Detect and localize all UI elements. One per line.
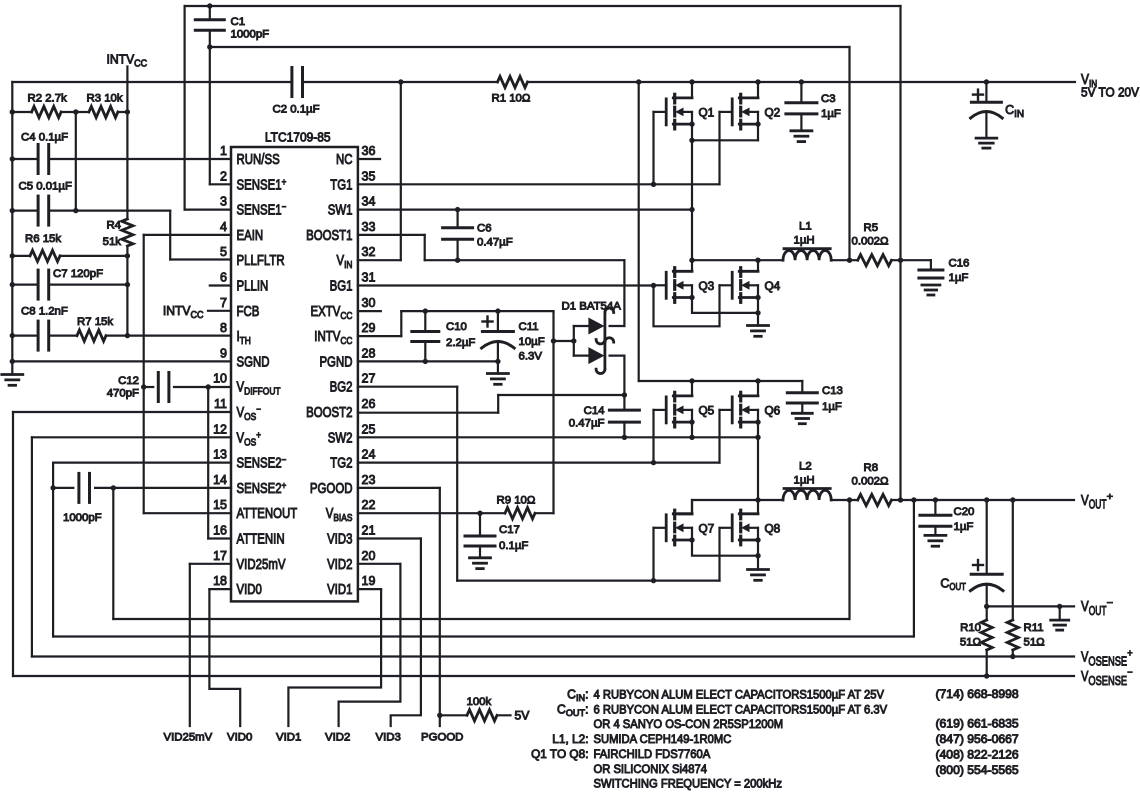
svg-text:R7 15k: R7 15k — [77, 316, 113, 328]
svg-text:LTC1709-85: LTC1709-85 — [265, 130, 331, 145]
svg-text:Q2: Q2 — [765, 106, 781, 120]
capacitor 1000pF — [77, 473, 80, 502]
svg-text:13: 13 — [213, 447, 227, 462]
wire EXTVCC rail — [401, 310, 553, 312]
svg-text:33: 33 — [362, 219, 376, 234]
wire C10 bottom stub — [424, 342, 426, 362]
svg-text:1µF: 1µF — [954, 521, 974, 533]
svg-text:L1: L1 — [799, 221, 812, 233]
svg-text:−: − — [1127, 668, 1132, 679]
wire CIN stub — [985, 82, 987, 102]
junction BOOST2/C14 top — [622, 392, 627, 397]
wire L2 to R8 — [831, 499, 858, 501]
junction Q5 on SW2 row — [689, 435, 694, 440]
svg-text:VID3: VID3 — [376, 732, 401, 744]
wire Q4 source drop — [757, 298, 759, 326]
svg-text:L2: L2 — [799, 461, 812, 473]
svg-text:R11: R11 — [1024, 622, 1044, 634]
svg-text:IN: IN — [1014, 109, 1024, 120]
svg-text:−: − — [282, 202, 287, 213]
svg-text:C6: C6 — [477, 223, 492, 235]
svg-text:−: − — [282, 455, 287, 466]
svg-text:C2 0.1µF: C2 0.1µF — [273, 104, 320, 116]
svg-text:VID1: VID1 — [276, 732, 301, 744]
wire pin24 TG2 row — [358, 462, 720, 464]
wire pin26 BOOST2 row — [358, 412, 498, 414]
wire C16 stub — [930, 260, 932, 270]
svg-text:8: 8 — [220, 320, 227, 335]
wire pin22 VBIAS row — [358, 512, 505, 514]
svg-text:1000pF: 1000pF — [63, 512, 102, 524]
capacitor CIN (polarized) — [971, 101, 1001, 104]
junction SENSE2+ riser — [111, 485, 116, 490]
svg-text:(847) 956-0667: (847) 956-0667 — [936, 732, 1019, 746]
capacitor C13 — [787, 391, 817, 394]
svg-text:Q6: Q6 — [765, 404, 781, 418]
wire INTVCC jog up — [400, 311, 402, 336]
svg-text:PGOOD: PGOOD — [421, 732, 463, 744]
svg-text:+: + — [282, 481, 287, 492]
wire R7 to node — [106, 335, 127, 337]
svg-text:Q4: Q4 — [765, 279, 781, 293]
wire INTVCC label lead — [126, 67, 128, 113]
transistor Q8 — [739, 512, 758, 515]
wire CIN ground stem — [985, 112, 987, 138]
wire BOOST1 row right — [425, 259, 625, 261]
ground under C16 — [922, 284, 940, 287]
svg-text:C10: C10 — [446, 321, 467, 333]
svg-text:ATTENIN: ATTENIN — [237, 532, 285, 548]
svg-text:C3: C3 — [821, 93, 836, 105]
junction Q3/Q4 source join — [755, 310, 760, 315]
wire R5 right — [892, 259, 931, 261]
wire D1b cathode drop to BOOST2 — [623, 356, 625, 395]
svg-text:OUT: OUT — [949, 582, 966, 593]
svg-text:OS: OS — [244, 436, 256, 448]
svg-text:R3 10k: R3 10k — [87, 93, 123, 105]
wire top anode lead — [574, 325, 589, 327]
capacitor C14 — [609, 409, 639, 412]
wire pullup to 100k — [440, 714, 467, 716]
junction VOUT- ground tap — [1057, 604, 1062, 609]
svg-text:C5 0.01µF: C5 0.01µF — [19, 181, 72, 193]
svg-text:0.1µF: 0.1µF — [499, 540, 528, 552]
wire pin29 INTVCC row — [358, 335, 401, 337]
svg-text:VID25mV: VID25mV — [237, 557, 286, 573]
svg-text:28: 28 — [362, 345, 376, 360]
svg-text:INTV: INTV — [163, 303, 191, 318]
svg-text:6.3V: 6.3V — [519, 351, 543, 363]
wire pin18 row — [209, 588, 231, 590]
svg-text:0.002Ω: 0.002Ω — [852, 476, 890, 488]
wire pin36 NC stub — [358, 158, 380, 160]
svg-text:32: 32 — [362, 244, 376, 259]
wire C3 ground stem — [800, 114, 802, 131]
wire R2-R3 — [61, 111, 89, 113]
wire Q5 drain riser — [691, 381, 693, 396]
svg-text:BIAS: BIAS — [333, 512, 352, 524]
svg-text:FCB: FCB — [237, 304, 260, 320]
wire pin2 SENSE1+ row — [210, 183, 231, 185]
wire phase2 VIN feed — [638, 82, 640, 381]
capacitor C12 — [157, 373, 160, 402]
wire C5 row right — [49, 210, 170, 212]
svg-text:VID0: VID0 — [227, 732, 252, 744]
svg-text:29: 29 — [362, 320, 376, 335]
wire C7 row right — [49, 284, 128, 286]
svg-text:OSENSE: OSENSE — [1088, 674, 1127, 688]
svg-text:+: + — [282, 177, 287, 188]
svg-text:C17: C17 — [499, 524, 520, 536]
svg-text:17: 17 — [213, 548, 227, 563]
resistor R3 — [89, 106, 118, 117]
svg-text:PGOOD: PGOOD — [310, 481, 353, 497]
wire Q6 drain riser — [757, 381, 759, 396]
resistor R2 — [32, 106, 61, 117]
wire to pin5 PLLFLTR — [170, 258, 231, 260]
svg-text:INTV: INTV — [107, 52, 135, 67]
wire Q3 drain riser — [691, 260, 693, 271]
junction C10 top — [423, 308, 428, 313]
svg-text:C7 120pF: C7 120pF — [53, 268, 103, 280]
wire R3 to INTVCC node — [118, 111, 128, 113]
wire pin4 EAIN row — [144, 234, 231, 236]
wire C11 ground stem — [497, 361, 499, 373]
wire pin33 BOOST1 row — [358, 234, 425, 236]
wire Q6 source drop — [757, 422, 759, 500]
wire EXTVCC rail drop — [552, 311, 554, 513]
capacitor C11 (polarized) — [482, 330, 513, 333]
svg-text:CC: CC — [134, 58, 147, 69]
junction Q6 drain — [755, 378, 760, 383]
junction on ground bus — [10, 282, 15, 287]
wire pin15 ATTENOUT row — [144, 512, 231, 514]
wire SENSE1- top row — [185, 5, 901, 7]
svg-text:51Ω: 51Ω — [960, 637, 982, 649]
svg-text:14: 14 — [213, 472, 227, 487]
svg-text:VID3: VID3 — [327, 532, 352, 548]
svg-text::: : — [585, 688, 588, 702]
junction on ground bus — [10, 156, 15, 161]
svg-text:6: 6 — [220, 270, 227, 285]
svg-text:0.47µF: 0.47µF — [477, 237, 513, 249]
svg-text:C16: C16 — [949, 258, 970, 270]
junction C17 tap — [477, 511, 482, 516]
svg-text:4 RUBYCON ALUM ELECT CAPACITOR: 4 RUBYCON ALUM ELECT CAPACITORS1500µF AT… — [594, 688, 885, 702]
svg-text:36: 36 — [362, 143, 376, 158]
junction L1/R5 SENSE1+ tap — [847, 258, 852, 263]
wire Q7 source drop — [692, 540, 758, 556]
capacitor C17 — [465, 535, 495, 538]
resistor R1 — [498, 76, 528, 87]
wire pin35 TG1 row — [358, 183, 720, 185]
junction R11 on VOSENSE+ — [1010, 654, 1015, 659]
svg-text:R9 10Ω: R9 10Ω — [497, 495, 536, 507]
junction D1 anode tap — [551, 338, 556, 343]
wire C20 stub — [934, 500, 936, 515]
capacitor C6 — [443, 226, 473, 229]
junction L2/Q6/Q8 node — [755, 497, 760, 502]
wire SW1 vertical — [691, 124, 693, 260]
ground under C13 — [792, 412, 812, 415]
svg-text:1µH: 1µH — [794, 475, 815, 487]
resistor R10 — [981, 620, 992, 650]
wire SENSE1- left vertical — [184, 6, 186, 210]
junction BG1 Q3 gate — [651, 283, 656, 288]
wire BG2 drop — [456, 387, 458, 581]
wire pin23 PGOOD row — [358, 487, 440, 489]
wire anode bracket — [573, 326, 575, 356]
wire R6 row left — [12, 255, 30, 257]
wire anode tap — [554, 340, 574, 342]
svg-text:−: − — [256, 405, 261, 416]
junction SW1 node — [689, 258, 694, 263]
junction BG2 Q7 gate riser — [651, 578, 656, 583]
svg-text:SENSE2: SENSE2 — [237, 456, 282, 472]
svg-text:SENSE1: SENSE1 — [237, 203, 282, 219]
wire C2 to R1 — [303, 81, 498, 83]
wire Q7 drain to SW2 — [691, 500, 693, 514]
svg-text:5: 5 — [220, 244, 227, 259]
svg-text:19: 19 — [362, 573, 376, 588]
junction Q6 source — [755, 419, 760, 424]
svg-text:22: 22 — [362, 497, 376, 512]
resistor R11 — [1007, 620, 1018, 650]
svg-text:18: 18 — [213, 573, 227, 588]
svg-text:Q1 TO Q8:: Q1 TO Q8: — [531, 747, 588, 761]
wire C1 top stub — [209, 6, 211, 20]
junction R2/R3 node — [73, 109, 78, 114]
svg-text:RUN/SS: RUN/SS — [237, 152, 280, 168]
svg-text:470pF: 470pF — [107, 388, 139, 400]
svg-text:VID25mV: VID25mV — [164, 732, 213, 744]
svg-text:BG2: BG2 — [330, 380, 353, 396]
wire VID1 route — [288, 589, 381, 726]
junction SW1 at Q1 source line — [689, 207, 694, 212]
wire Q4 drain riser — [757, 260, 759, 271]
resistor R8 — [858, 494, 892, 505]
wire pin30 EXTVCC stub — [358, 310, 381, 312]
junction Q1 source — [689, 121, 694, 126]
junction on ground bus — [10, 253, 15, 258]
junction Q4 source — [755, 295, 760, 300]
junction C12 right — [206, 384, 211, 389]
svg-text:OUT: OUT — [1089, 497, 1107, 511]
wire SENSE1- right riser — [899, 6, 901, 500]
ground under C17 — [470, 556, 491, 559]
wire VOUT- row — [987, 605, 1074, 607]
wire C20 ground stem — [934, 526, 936, 535]
resistor R4 — [122, 219, 133, 246]
wire C13 stub — [801, 381, 803, 393]
junction C1 top — [207, 3, 212, 8]
svg-text:Q5: Q5 — [699, 404, 715, 418]
svg-text:16: 16 — [213, 523, 227, 538]
junction VIN row at pin32 riser — [398, 79, 403, 84]
wire Q7 drain riser — [679, 512, 692, 515]
svg-text:BOOST1: BOOST1 — [306, 228, 352, 244]
svg-text:26: 26 — [362, 396, 376, 411]
wire R8 right / VOUT+ row — [892, 499, 1075, 501]
svg-text:+: + — [256, 430, 261, 441]
svg-text:4: 4 — [220, 219, 227, 234]
wire Q2 gate riser — [718, 112, 720, 184]
svg-text:(714) 668-8998: (714) 668-8998 — [936, 687, 1020, 701]
svg-text:TG2: TG2 — [330, 456, 352, 472]
svg-text:0.002Ω: 0.002Ω — [852, 236, 890, 248]
wire SENSE2- left vertical — [52, 463, 54, 637]
svg-text:TG1: TG1 — [330, 177, 352, 193]
svg-text:27: 27 — [362, 371, 376, 386]
wire pin11 VOS- row — [13, 411, 231, 413]
svg-text:TH: TH — [240, 335, 251, 347]
wire pin32 row — [358, 259, 401, 261]
junction C10 bottom — [423, 359, 428, 364]
svg-text:23: 23 — [362, 472, 376, 487]
svg-text:SENSE2: SENSE2 — [237, 481, 282, 497]
svg-text:R6 15k: R6 15k — [25, 233, 61, 245]
wire VID25mV vertical — [189, 564, 191, 726]
wire BOOST2 jog up — [497, 395, 499, 413]
capacitor C7 — [37, 270, 40, 299]
junction C6 bottom — [455, 258, 460, 263]
junction on ground bus — [10, 109, 15, 114]
junction Q2 source — [755, 121, 760, 126]
wire pin31 BG1 row — [358, 284, 654, 286]
svg-text:SWITCHING FREQUENCY = 200kHz: SWITCHING FREQUENCY = 200kHz — [594, 777, 783, 791]
wire R11 top lead — [1012, 500, 1014, 620]
svg-text:35: 35 — [362, 168, 376, 183]
svg-text:Q7: Q7 — [699, 522, 715, 536]
wire VIN riser to pin32 — [400, 82, 402, 260]
wire Q2 source drop — [757, 124, 759, 140]
wire pin12 VOS+ row — [32, 436, 231, 438]
svg-text:OS: OS — [244, 411, 256, 423]
svg-text:PGND: PGND — [319, 354, 352, 370]
svg-text:C13: C13 — [822, 385, 843, 397]
inductor L2 — [783, 490, 831, 500]
svg-text:(800) 554-5565: (800) 554-5565 — [936, 763, 1020, 777]
wire C13 ground stem — [801, 403, 803, 413]
svg-text:11: 11 — [214, 396, 227, 411]
wire Q3 source drop — [692, 298, 758, 313]
wire C8 to R7 — [49, 335, 77, 337]
wire VDIFFOUT to ATTENIN vertical — [207, 387, 209, 539]
junction VIN row at Q2 drain — [755, 79, 760, 84]
junction Q7 source — [689, 537, 694, 542]
wire BG1 bracket — [654, 285, 720, 326]
junction on ground bus — [10, 359, 15, 364]
wire BOOST2 row right — [498, 394, 624, 396]
svg-text:1µH: 1µH — [794, 235, 815, 247]
capacitor C8 — [37, 321, 40, 350]
wire EAIN vertical — [143, 235, 145, 513]
wire ITH row to IC pin8 — [127, 335, 231, 337]
junction R4/R6 node — [125, 253, 130, 258]
wire C17 ground stem — [479, 546, 481, 558]
wire C5 row left — [12, 210, 38, 212]
svg-text:BG1: BG1 — [330, 279, 353, 295]
svg-text:VID2: VID2 — [327, 557, 352, 573]
svg-text:NC: NC — [336, 152, 353, 168]
ground under C11 — [487, 372, 508, 375]
wire C11 bottom stub — [497, 341, 499, 361]
wire VID2 route — [339, 564, 401, 726]
wire pin34 SW1 row — [358, 209, 692, 211]
wire pin17 row — [190, 563, 231, 565]
wire BG2 row bottom — [457, 579, 719, 581]
svg-text:D1 BAT54A: D1 BAT54A — [562, 301, 622, 313]
junction Q3 source — [689, 295, 694, 300]
svg-text::: : — [585, 702, 588, 716]
wire 1000pF left lead — [53, 487, 73, 489]
resistor R5 — [858, 255, 892, 266]
svg-text:C14: C14 — [584, 405, 605, 417]
wire pin1 row to IC — [49, 158, 231, 160]
junction COUT tap — [984, 497, 989, 502]
wire SW2 row to L2 — [692, 500, 783, 514]
svg-text:C8 1.2nF: C8 1.2nF — [21, 306, 68, 318]
svg-text:C20: C20 — [954, 506, 975, 518]
wire pin19 row — [358, 588, 381, 590]
junction PGOOD pullup — [437, 713, 442, 718]
wire pin3 SENSE1- row — [185, 209, 231, 211]
resistor R7 — [77, 330, 106, 341]
wire row VOSENSE- (D) — [13, 675, 1074, 677]
junction Q7/Q8 source join — [755, 553, 760, 558]
wire Q7 gate riser — [652, 528, 654, 581]
svg-text:15: 15 — [213, 497, 227, 512]
wire source join row — [692, 139, 758, 141]
svg-text:C: C — [567, 688, 576, 702]
wire pin6 PLLIN stub — [210, 284, 231, 286]
wire pin28 PGND row — [358, 360, 498, 362]
transistor Q1 — [673, 97, 692, 100]
wire pin20 row — [358, 563, 401, 565]
wire pin7 FCB stub — [208, 310, 231, 312]
transistor Q5 — [673, 394, 692, 397]
capacitor C2 — [290, 68, 293, 97]
svg-text:1µF: 1µF — [821, 108, 841, 120]
svg-text:CC: CC — [190, 310, 203, 321]
junction Q5 source — [689, 419, 694, 424]
junction COUT bottom / VOUT- node — [984, 604, 989, 609]
svg-text:51Ω: 51Ω — [1024, 637, 1046, 649]
svg-text:PLLIN: PLLIN — [237, 279, 269, 295]
wire BOOST1 jog down — [424, 235, 426, 260]
ground under C20 — [925, 534, 946, 537]
wire pin16 ATTENIN row — [208, 537, 231, 539]
svg-text:IN: IN — [344, 259, 352, 271]
wire pin27 BG2 row — [358, 386, 457, 388]
svg-text:SUMIDA CEPH149-1R0MC: SUMIDA CEPH149-1R0MC — [594, 732, 732, 746]
junction 1000pF left — [50, 485, 55, 490]
svg-text:9: 9 — [220, 345, 227, 360]
svg-text:R5: R5 — [864, 222, 879, 234]
inductor L1 — [783, 251, 831, 261]
svg-text:IN: IN — [576, 692, 585, 703]
resistor R6 — [30, 250, 60, 261]
wire SENSE2+ left vertical — [112, 488, 114, 619]
svg-text:VID2: VID2 — [325, 732, 350, 744]
wire C8 row left — [12, 335, 38, 337]
svg-text:SW2: SW2 — [328, 430, 353, 446]
junction Q6 on SW2 row — [755, 435, 760, 440]
wire 100k to 5V — [497, 714, 511, 716]
diode D1b (bottom) — [588, 347, 604, 364]
wire R10 bottom lead — [986, 650, 988, 676]
svg-text:PLLFLTR: PLLFLTR — [237, 253, 285, 269]
